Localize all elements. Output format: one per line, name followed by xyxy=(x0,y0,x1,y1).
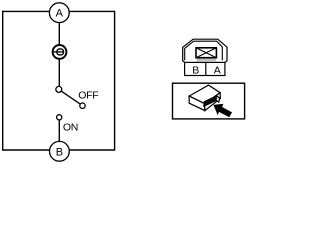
svg-text:A: A xyxy=(214,65,221,77)
terminal cell divider xyxy=(205,62,207,75)
wire top edge xyxy=(3,10,115,12)
connector body left face xyxy=(189,96,205,111)
connector body top face xyxy=(189,85,220,104)
lamp bulb xyxy=(53,45,67,59)
connector photo frame xyxy=(173,83,245,119)
connector terminal block xyxy=(204,96,220,106)
svg-text:A: A xyxy=(56,8,64,20)
connector terminal row xyxy=(185,62,225,75)
wire left edge xyxy=(2,11,4,151)
wire lamp to switch xyxy=(58,59,60,86)
svg-text:B: B xyxy=(56,146,63,158)
svg-text:B: B xyxy=(192,64,199,76)
switch blade xyxy=(62,91,81,104)
terminal A xyxy=(49,3,69,23)
svg-text:ON: ON xyxy=(63,121,78,133)
connector face housing outer xyxy=(183,39,227,62)
terminal B xyxy=(50,141,70,161)
svg-text:OFF: OFF xyxy=(78,89,98,101)
connector lock tab box xyxy=(196,48,216,58)
wire bottom edge xyxy=(3,149,115,151)
connector face housing inner xyxy=(185,41,223,60)
switch ON contact xyxy=(57,115,62,120)
wire terminal A to lamp xyxy=(58,23,60,45)
wire right edge xyxy=(114,11,116,151)
connector body right face xyxy=(205,93,221,111)
switch common contact xyxy=(56,86,62,92)
switch OFF contact xyxy=(80,103,85,108)
wire ON contact to terminal B xyxy=(58,120,60,141)
connector lock tab shadow xyxy=(197,58,217,61)
pointer arrow xyxy=(213,104,232,118)
